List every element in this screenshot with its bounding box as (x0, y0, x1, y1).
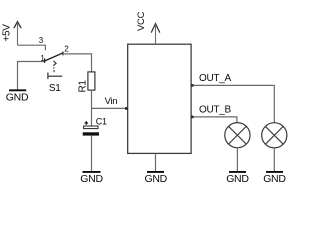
svg-text:S1: S1 (49, 83, 61, 94)
wire lamp LA2 to ground (273, 148, 275, 171)
ground (below lamp LA2) (263, 172, 286, 185)
ground (below C1) (80, 172, 103, 185)
wire lamp LA1 to ground (236, 148, 238, 171)
switch S1 (45, 52, 63, 80)
ground (left, at switch) (6, 90, 29, 103)
wire Vin node to C1 (91, 108, 93, 125)
svg-text:GND: GND (80, 173, 103, 184)
net OUT_A wire (191, 73, 274, 123)
lamp LA1 (left) (225, 123, 250, 148)
power VCC (136, 11, 160, 44)
IC U1 (128, 44, 191, 153)
svg-text:R1: R1 (78, 80, 89, 93)
label S1 (49, 83, 61, 94)
svg-text:VCC: VCC (136, 11, 147, 31)
svg-text:GND: GND (263, 173, 286, 184)
svg-text:GND: GND (226, 173, 249, 184)
wire +5V to S1 pin 3 (18, 45, 46, 50)
ground (below U1) (145, 172, 168, 185)
pin number 2 (64, 45, 69, 54)
pin number 1 (40, 54, 45, 63)
wire S1 pin 2 to R1 (63, 54, 92, 72)
wire U1 to ground (155, 153, 157, 171)
ground (below lamp LA1) (226, 172, 249, 185)
pin number 3 (39, 36, 44, 45)
svg-text:+5V: +5V (2, 24, 13, 42)
wire S1 pin 1 to ground (18, 62, 45, 90)
lamp LA2 (right) (262, 123, 287, 148)
wire C1 to ground (91, 136, 93, 171)
svg-text:OUT_A: OUT_A (199, 73, 231, 84)
svg-text:Vin: Vin (105, 96, 118, 107)
svg-text:GND: GND (145, 173, 168, 184)
wire R1 to node Vin (91, 90, 93, 108)
net OUT_B wire (191, 105, 237, 123)
svg-text:OUT_B: OUT_B (199, 105, 231, 116)
node Vin / wire to U1 (92, 96, 129, 110)
svg-text:C1: C1 (96, 117, 107, 127)
svg-text:GND: GND (6, 92, 29, 104)
capacitor C1 (83, 117, 107, 136)
power +5V (2, 22, 22, 46)
resistor R1 (78, 72, 95, 93)
